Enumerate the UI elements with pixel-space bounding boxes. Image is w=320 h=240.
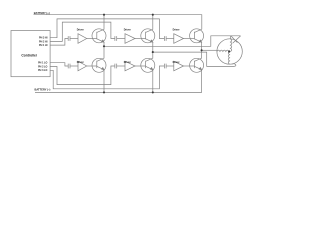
- svg-text:PH 2 LO: PH 2 LO: [38, 65, 47, 68]
- transistor Q2: [141, 15, 155, 52]
- wire phase B to motor: [153, 52, 236, 66]
- op-amp driver A1: [78, 34, 92, 44]
- wire PH 1 HI: [50, 39, 68, 46]
- svg-text:Driver: Driver: [173, 61, 180, 64]
- wire phase A to motor: [104, 36, 241, 47]
- svg-text:PH 1 LO: PH 1 LO: [38, 62, 47, 65]
- transistor Q5: [141, 52, 155, 92]
- transistor Q3: [190, 29, 204, 51]
- junction bottom rail / Q4 emitter: [103, 91, 105, 93]
- capacitor C5: [115, 64, 125, 69]
- svg-text:Controller: Controller: [21, 53, 37, 57]
- op-amp driver A5: [125, 61, 141, 71]
- svg-text:Driver: Driver: [124, 28, 131, 31]
- wire PH 2 HI: [50, 22, 115, 41]
- node phase B: [152, 51, 154, 53]
- svg-text:BATTERY (+): BATTERY (+): [34, 11, 50, 15]
- motor winding phase A: [230, 39, 231, 52]
- junction top rail / Q2 collector: [152, 14, 154, 16]
- svg-text:PH 1 HI: PH 1 HI: [39, 44, 48, 47]
- wire PH 2 LO: [50, 66, 115, 85]
- svg-text:Driver: Driver: [173, 28, 180, 31]
- wire PH 1 LO: [50, 63, 68, 66]
- capacitor C2: [115, 36, 125, 41]
- op-amp driver A3: [174, 34, 190, 44]
- transistor Q1: [92, 15, 106, 47]
- motor M1: [217, 39, 242, 64]
- node B+ rail: [34, 15, 202, 30]
- wire PH 3 LO: [50, 66, 164, 89]
- motor winding phase C: [217, 50, 229, 51]
- svg-text:Driver: Driver: [77, 28, 84, 31]
- capacitor C1: [68, 36, 78, 41]
- svg-text:BATTERY (−): BATTERY (−): [35, 88, 51, 92]
- svg-text:PH 3 LO: PH 3 LO: [38, 69, 47, 72]
- capacitor C6: [164, 64, 173, 69]
- node phase C: [201, 49, 203, 51]
- junction motor star point: [228, 50, 230, 52]
- junction top rail / Q1 collector: [103, 14, 105, 16]
- node B- rail: [35, 70, 202, 93]
- motor winding phase B: [228, 52, 229, 64]
- controller U1: [11, 31, 50, 77]
- wire phase C to motor: [202, 49, 217, 51]
- op-amp driver A6: [174, 61, 190, 71]
- wire PH 3 HI: [50, 19, 164, 39]
- capacitor C3: [164, 36, 173, 41]
- node phase A: [103, 45, 105, 47]
- svg-text:Driver: Driver: [124, 61, 131, 64]
- svg-text:PH 2 HI: PH 2 HI: [39, 40, 48, 43]
- op-amp driver A4: [78, 61, 92, 71]
- junction bottom rail / Q5 emitter: [152, 91, 154, 93]
- transistor Q6: [190, 50, 204, 72]
- svg-text:PH 3 HI: PH 3 HI: [39, 37, 48, 40]
- op-amp driver A2: [125, 34, 141, 44]
- svg-text:Driver: Driver: [77, 61, 84, 64]
- capacitor C4: [68, 64, 78, 69]
- transistor Q4: [92, 46, 106, 92]
